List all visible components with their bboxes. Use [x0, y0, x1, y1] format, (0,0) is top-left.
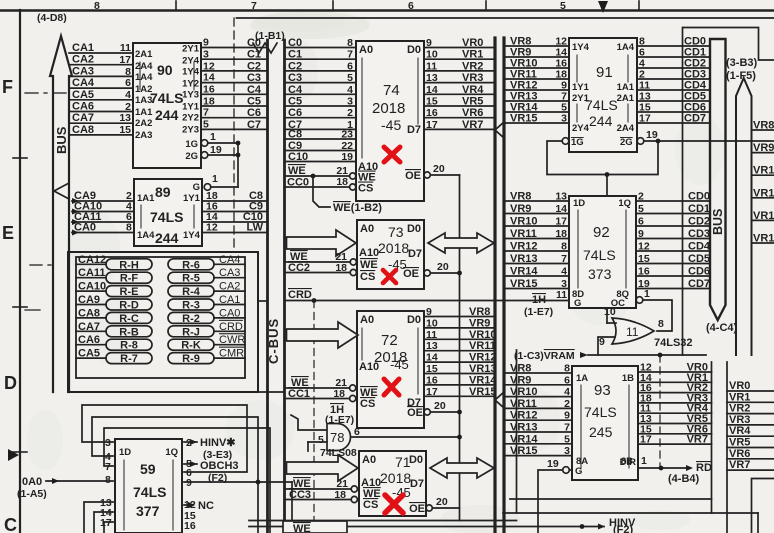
resistor R-H row CA12 [76, 254, 152, 272]
svg-text:4: 4 [125, 89, 131, 101]
svg-text:9: 9 [186, 477, 192, 489]
wire CA2 [69, 54, 133, 66]
U92 OC [636, 288, 672, 331]
svg-text:1H: 1H [532, 294, 546, 306]
svg-text:9: 9 [426, 306, 432, 318]
svg-text:1Y3: 1Y3 [182, 90, 199, 101]
U90 2G enable [185, 144, 238, 162]
wire CD6 from U91 [637, 102, 710, 114]
svg-text:18: 18 [335, 262, 347, 274]
wire CA1 [69, 42, 133, 54]
svg-text:CD1: CD1 [688, 203, 710, 215]
svg-text:13: 13 [555, 191, 567, 203]
svg-text:VR8: VR8 [753, 120, 774, 132]
svg-text:3: 3 [105, 437, 111, 449]
box channel vertical left [711, 362, 713, 513]
resistor R-J row CRD [168, 321, 245, 339]
node HINV (F2) [609, 517, 636, 533]
svg-text:CA2: CA2 [219, 281, 240, 293]
wire VR12 to U93 [504, 410, 572, 422]
svg-text:HINV✱: HINV✱ [200, 437, 236, 449]
wire WE to U72 [285, 377, 356, 391]
wire C10 from U89 [202, 211, 268, 223]
svg-text:OE: OE [409, 503, 425, 515]
resistor R-B row CA7 [76, 321, 152, 339]
svg-text:2Y1: 2Y1 [572, 93, 590, 104]
wire CA6 [69, 101, 133, 113]
svg-text:CA3: CA3 [72, 65, 94, 77]
svg-text:A10: A10 [359, 247, 379, 259]
svg-text:VR5: VR5 [462, 96, 483, 108]
svg-text:VR11: VR11 [510, 228, 537, 240]
svg-text:73: 73 [388, 224, 404, 240]
svg-text:4: 4 [561, 266, 567, 278]
wire C9 to U74 [285, 140, 357, 152]
svg-text:NC: NC [198, 500, 214, 512]
wire C7 to U74 [285, 119, 357, 131]
resistor R-5 row CA3 [168, 267, 245, 285]
svg-text:4: 4 [347, 84, 353, 96]
wire CA11 [72, 211, 134, 225]
svg-text:6: 6 [347, 60, 353, 72]
bus arrow into U72 [287, 322, 359, 348]
svg-text:10: 10 [426, 49, 438, 61]
svg-text:VR3: VR3 [729, 414, 750, 426]
svg-text:1A: 1A [576, 373, 588, 384]
svg-text:OE: OE [403, 268, 419, 280]
svg-text:WE(1-B2): WE(1-B2) [333, 202, 382, 214]
node (3-B3)(1-F5) [726, 57, 758, 82]
wire C4 to U74 [285, 84, 357, 96]
svg-text:2A1: 2A1 [617, 93, 635, 104]
wire VR7 from U93 [638, 434, 712, 446]
svg-text:VR1: VR1 [462, 49, 483, 61]
node 1H (1-E7) [291, 404, 354, 430]
right section box bottom [503, 512, 758, 514]
svg-text:1A4: 1A4 [135, 72, 153, 83]
wire CA9 [72, 190, 134, 204]
svg-text:(4-B4): (4-B4) [668, 473, 700, 485]
wire VR3 right edge [727, 414, 774, 426]
svg-text:F: F [2, 77, 13, 97]
svg-text:CA8: CA8 [72, 124, 94, 136]
wire VR6 from U74 [424, 107, 495, 119]
U90 input pin names [135, 49, 153, 141]
svg-text:VR7: VR7 [462, 119, 483, 131]
svg-text:2Y2: 2Y2 [182, 113, 199, 124]
border ticks top [176, 1, 639, 10]
svg-text:9: 9 [426, 37, 432, 49]
svg-text:90: 90 [157, 62, 173, 78]
wire LW from U89 [202, 222, 268, 234]
resistor R-D row CA9 [76, 294, 152, 312]
svg-text:(1-F5): (1-F5) [726, 70, 756, 82]
wire CD4 from U91 [637, 80, 710, 92]
svg-text:6: 6 [408, 0, 414, 12]
svg-text:11: 11 [426, 60, 437, 72]
svg-text:7: 7 [251, 0, 257, 12]
svg-text:1G: 1G [185, 139, 198, 150]
svg-text:R-3: R-3 [182, 300, 200, 312]
wire VR5 right edge [727, 437, 774, 449]
junction 2G [236, 153, 241, 158]
svg-text:G: G [193, 182, 200, 193]
svg-text:1Y1: 1Y1 [183, 193, 201, 204]
wire VR12 to U92 [504, 241, 569, 253]
or-gate U11 74LS32 [598, 306, 693, 355]
wire VR13 to U91 [504, 91, 569, 103]
wire C3 to U74 [285, 72, 357, 84]
wire VR10 to U92 [504, 216, 569, 228]
svg-text:VR8: VR8 [510, 191, 531, 203]
wire VR0 from U74 [424, 37, 495, 49]
svg-text:6: 6 [638, 216, 644, 228]
svg-text:74LS: 74LS [585, 97, 618, 113]
svg-text:WE: WE [293, 523, 311, 533]
svg-text:A0: A0 [360, 314, 374, 326]
wire VR10 from U72 [424, 329, 497, 341]
svg-text:74LS32: 74LS32 [654, 337, 693, 349]
svg-text:BUS: BUS [54, 126, 69, 154]
resistor R-9 row CMR [168, 348, 245, 366]
svg-text:R-C: R-C [119, 313, 139, 325]
wire C2 to U74 [285, 60, 357, 72]
wire VR6 from U93 [638, 423, 712, 435]
wire CD7 from U91 [637, 113, 710, 125]
resistor R-6 row CA4 [168, 254, 245, 272]
svg-text:R-J: R-J [182, 326, 200, 338]
wire CD6 from U92 [636, 266, 710, 278]
svg-text:14: 14 [555, 203, 567, 215]
wire CD2 from U91 [637, 58, 710, 70]
svg-text:CA7: CA7 [72, 112, 94, 124]
svg-text:5: 5 [564, 433, 570, 445]
box corner step bottom right [752, 479, 774, 533]
svg-text:VR11: VR11 [469, 340, 496, 352]
svg-text:7: 7 [105, 461, 111, 473]
svg-text:(1-A5): (1-A5) [17, 488, 47, 500]
svg-text:VR8: VR8 [510, 363, 531, 375]
svg-text:8: 8 [105, 474, 111, 486]
wire U59 pin14 hook [94, 512, 113, 533]
svg-text:VR2: VR2 [462, 60, 483, 72]
U59 pin numbers right [184, 437, 196, 532]
svg-text:7: 7 [347, 49, 353, 61]
node (1-C3) VRAM [514, 350, 706, 362]
wire CC3 to U71 [285, 489, 358, 503]
bus arrow into U73 [287, 230, 357, 256]
wire VR13 to U92 [504, 253, 569, 265]
resistor R-7 row CA5 [76, 348, 152, 366]
wire VR4 from U93 [638, 403, 712, 415]
svg-text:1: 1 [210, 131, 216, 143]
wire VR0 from U93 [638, 362, 712, 374]
svg-text:CD7: CD7 [684, 113, 706, 125]
wire CA4 [69, 77, 133, 89]
svg-text:8: 8 [658, 318, 664, 330]
svg-text:1A1: 1A1 [135, 107, 153, 118]
svg-text:C1: C1 [288, 49, 302, 61]
wire U59 feedback loop C [104, 428, 270, 533]
svg-text:R-5: R-5 [182, 273, 200, 285]
svg-text:16: 16 [638, 266, 650, 278]
svg-text:2A4: 2A4 [617, 123, 635, 134]
svg-text:72: 72 [381, 332, 398, 349]
svg-text:1G: 1G [571, 137, 584, 148]
svg-text:20: 20 [433, 163, 445, 175]
junction 2G net [656, 139, 661, 144]
svg-text:7: 7 [561, 253, 567, 265]
svg-text:1Y4: 1Y4 [182, 67, 200, 78]
wire CD1 from U91 [637, 47, 710, 59]
svg-text:20: 20 [437, 261, 449, 273]
section divider dashed vertical [233, 18, 235, 252]
U91 1G enable [547, 137, 658, 175]
svg-text:VR12: VR12 [510, 241, 538, 253]
bus A-BUS vertical arrow [50, 36, 72, 392]
svg-text:VR11: VR11 [510, 398, 537, 410]
svg-text:CA4: CA4 [219, 254, 240, 266]
svg-text:74LS: 74LS [150, 209, 183, 225]
wire VR9 to U92 [504, 203, 569, 215]
bus VR chevron upper [495, 122, 504, 138]
svg-text:VR13: VR13 [510, 422, 538, 434]
svg-text:VR15: VR15 [510, 278, 538, 290]
RAM U72 2018-45 [357, 311, 424, 428]
svg-text:8: 8 [94, 0, 100, 12]
svg-text:244: 244 [589, 113, 613, 129]
svg-text:R-D: R-D [119, 300, 139, 312]
svg-text:2Y3: 2Y3 [182, 125, 199, 136]
wire VR12 right edge [752, 210, 774, 222]
svg-text:CRD: CRD [288, 289, 312, 301]
svg-text:R-8: R-8 [120, 340, 138, 352]
wire VR8 to U93 [504, 363, 572, 375]
wire VR8 right edge [752, 120, 774, 132]
svg-text:1Q: 1Q [165, 447, 178, 458]
dash-dot marks row E [25, 265, 51, 310]
svg-text:D7: D7 [408, 248, 422, 260]
svg-text:(4-D8): (4-D8) [37, 12, 67, 24]
bus VR right rail [502, 38, 505, 533]
svg-text:CS: CS [363, 499, 378, 511]
wire VR8 from U72 [424, 306, 495, 318]
svg-text:2A2: 2A2 [135, 118, 152, 129]
svg-text:C5: C5 [247, 96, 261, 108]
svg-text:VR9: VR9 [469, 317, 490, 329]
svg-text:CA0: CA0 [219, 307, 240, 319]
svg-text:1Y1: 1Y1 [572, 82, 590, 93]
wire VR11 to U93 [504, 398, 572, 410]
svg-text:1D: 1D [119, 447, 131, 458]
wire VR15 from U72 [424, 386, 497, 398]
svg-text:-45: -45 [381, 117, 401, 133]
svg-text:CD2: CD2 [688, 216, 710, 228]
svg-text:12: 12 [206, 222, 218, 234]
bus arrow into U71 [287, 455, 359, 481]
bidirectional bus arrow right of U73 [428, 233, 494, 253]
svg-text:15: 15 [119, 124, 131, 136]
wire VR4 right edge [727, 425, 774, 437]
svg-text:74LS: 74LS [133, 484, 166, 500]
svg-text:R-4: R-4 [182, 286, 201, 298]
svg-text:(1-C3)VRAM: (1-C3)VRAM [514, 350, 575, 362]
svg-text:18: 18 [555, 228, 567, 240]
wire C10 to U74 [285, 151, 357, 163]
revision arrow marker top [598, 1, 608, 13]
node 1H (1-E7) to U92 G [524, 289, 567, 318]
svg-text:VR13: VR13 [469, 363, 497, 375]
wire CD7 from U92 [636, 278, 710, 290]
svg-text:17: 17 [426, 386, 438, 398]
svg-text:17: 17 [119, 54, 131, 66]
resistor network inner box [76, 257, 245, 378]
svg-text:15: 15 [426, 363, 438, 375]
svg-text:CA1: CA1 [219, 294, 240, 306]
svg-text:3: 3 [564, 445, 570, 457]
svg-text:OE: OE [405, 170, 421, 182]
wire VR14 to U93 [504, 433, 572, 445]
svg-text:VR14: VR14 [510, 266, 538, 278]
svg-text:VR14: VR14 [510, 433, 538, 445]
net CRD [285, 289, 570, 303]
svg-text:2A3: 2A3 [135, 130, 152, 141]
svg-text:8: 8 [347, 37, 353, 49]
wire C0 from U90 [201, 37, 268, 49]
svg-text:5: 5 [560, 0, 566, 12]
wire VR11 to U91 [504, 69, 569, 81]
defect mark X on U73 [383, 270, 396, 283]
svg-text:CS: CS [360, 398, 375, 410]
svg-text:18: 18 [336, 176, 348, 188]
wire CC2 to U73 [285, 262, 357, 276]
wire VR2 right edge [727, 403, 774, 415]
svg-text:CA0: CA0 [74, 222, 96, 234]
svg-text:2A1: 2A1 [135, 49, 153, 60]
svg-text:D0: D0 [407, 314, 421, 326]
wire VR12 from U72 [424, 352, 497, 364]
wire VR11 from U72 [424, 340, 496, 352]
dash-dot marks row F [25, 92, 66, 94]
wire vertical at CD labels [682, 28, 684, 356]
svg-text:G: G [574, 298, 581, 309]
wire VR2 from U93 [638, 382, 712, 394]
svg-text:C4: C4 [288, 84, 303, 96]
svg-text:BUS: BUS [711, 209, 725, 235]
svg-text:92: 92 [593, 224, 610, 241]
svg-text:OE: OE [407, 407, 423, 419]
wire C9 from U89 [202, 201, 268, 213]
svg-text:1Y4: 1Y4 [183, 230, 201, 241]
svg-text:15: 15 [426, 96, 438, 108]
wire dashed DIR [659, 355, 661, 468]
U90 pin numbers right [203, 37, 215, 131]
svg-text:R-2: R-2 [182, 313, 200, 325]
wire CA7 [69, 112, 133, 124]
wire C3 from U90 [201, 72, 268, 84]
wire VR9 from U72 [424, 317, 495, 329]
svg-text:OBCH3: OBCH3 [200, 460, 239, 472]
svg-text:VR10: VR10 [469, 329, 497, 341]
svg-text:C3: C3 [247, 72, 261, 84]
wire CD1 from U92 [636, 203, 710, 215]
svg-text:VR0: VR0 [462, 37, 483, 49]
wire bottom HINV run [249, 520, 517, 522]
wire VR0 right edge [727, 380, 774, 392]
wire CA3 [69, 65, 133, 77]
svg-text:CA5: CA5 [78, 348, 100, 360]
node WE (1-B2) [311, 174, 383, 214]
wire VR1 from U93 [638, 372, 712, 384]
svg-text:CC3: CC3 [289, 489, 311, 501]
svg-text:1D: 1D [573, 198, 585, 209]
U90 1G enable [185, 131, 238, 150]
bus CD vertical with down arrow [710, 39, 726, 320]
svg-text:VR4: VR4 [462, 84, 484, 96]
svg-text:1A4: 1A4 [137, 230, 155, 241]
junction 1G [236, 141, 241, 146]
wire VR15 to U92 [504, 278, 569, 290]
svg-text:CC0: CC0 [287, 177, 309, 189]
svg-text:373: 373 [588, 266, 612, 282]
svg-text:3: 3 [347, 96, 353, 108]
svg-text:6: 6 [564, 374, 570, 386]
wire C5 from U90 [201, 96, 268, 108]
svg-text:VR13: VR13 [510, 253, 538, 265]
svg-text:16: 16 [426, 374, 438, 386]
wire VR3 from U93 [638, 392, 712, 404]
svg-text:CS: CS [358, 183, 373, 195]
svg-text:4: 4 [564, 386, 570, 398]
svg-text:C3: C3 [288, 72, 302, 84]
U93 G enable [538, 458, 572, 533]
svg-text:2G: 2G [185, 151, 198, 162]
svg-text:17: 17 [639, 113, 651, 125]
wire dashed branch from CRD [313, 301, 315, 533]
svg-text:VR12: VR12 [753, 210, 774, 222]
svg-text:R-E: R-E [120, 286, 139, 298]
svg-text:WE: WE [360, 259, 378, 271]
wire VR9 right edge [752, 142, 774, 154]
svg-text:377: 377 [136, 503, 160, 519]
svg-text:2Y4: 2Y4 [182, 56, 200, 67]
svg-text:VR14: VR14 [469, 374, 497, 386]
border ticks left [13, 158, 27, 452]
svg-text:R-B: R-B [119, 326, 139, 338]
node OBCH3 (F2) output [184, 460, 239, 484]
svg-text:CD7: CD7 [688, 278, 710, 290]
svg-text:1A4: 1A4 [617, 42, 635, 53]
buffer U91 74LS244 [569, 38, 637, 152]
wire VR1 from U74 [424, 49, 495, 61]
svg-text:R-6: R-6 [182, 259, 200, 271]
svg-text:WE: WE [288, 165, 306, 177]
wire CD0 from U92 [636, 191, 710, 203]
wire VR11 right edge [752, 187, 774, 199]
bus C-BUS left rail [266, 40, 269, 533]
svg-text:1A1: 1A1 [617, 82, 635, 93]
svg-text:C-BUS: C-BUS [266, 318, 281, 364]
wire VR1 right edge [727, 391, 774, 403]
wire C4 from U90 [201, 84, 268, 96]
wire CD3 from U92 [636, 228, 710, 240]
svg-text:1A1: 1A1 [137, 193, 155, 204]
svg-text:VR10: VR10 [753, 165, 774, 177]
wire U59 pin13 hook [84, 502, 113, 533]
svg-text:1Y1: 1Y1 [182, 102, 200, 113]
U89 G enable [193, 173, 238, 193]
svg-text:7: 7 [564, 422, 570, 434]
